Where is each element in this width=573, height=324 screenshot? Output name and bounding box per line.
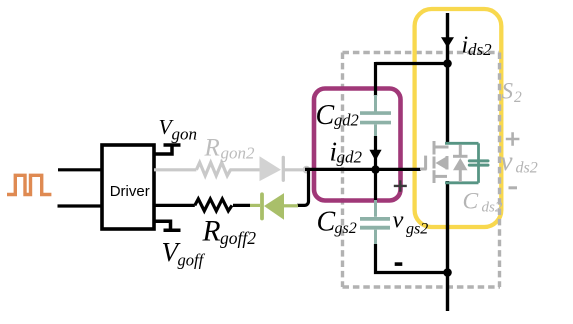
svg-text:ds2: ds2 [468, 40, 492, 59]
svg-text:goff: goff [178, 251, 206, 270]
svg-text:Driver: Driver [110, 183, 150, 200]
svg-text:gd2: gd2 [334, 111, 359, 130]
svg-text:S: S [502, 79, 514, 104]
svg-text:goff2: goff2 [220, 228, 256, 248]
svg-text:C: C [316, 100, 335, 131]
svg-text:R: R [204, 135, 220, 162]
svg-text:gs2: gs2 [406, 221, 428, 238]
svg-text:ds2: ds2 [516, 160, 538, 177]
svg-text:ds2: ds2 [482, 200, 503, 216]
svg-text:gd2: gd2 [337, 148, 363, 167]
svg-text:gs2: gs2 [335, 220, 357, 237]
svg-text:2: 2 [514, 89, 522, 106]
svg-text:v: v [393, 207, 404, 234]
svg-text:gon2: gon2 [221, 144, 256, 163]
svg-text:v: v [501, 146, 513, 176]
svg-text:C: C [317, 207, 336, 238]
svg-text:R: R [202, 216, 221, 248]
svg-text:C: C [463, 189, 479, 215]
svg-text:gon: gon [172, 125, 198, 144]
